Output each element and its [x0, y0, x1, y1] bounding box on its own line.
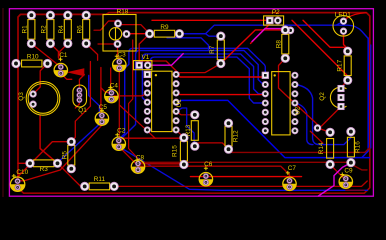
capacitor C5 — [95, 104, 108, 125]
svg-text:C4: C4 — [110, 83, 119, 90]
wire — [75, 100, 79, 108]
svg-text:U2: U2 — [294, 106, 301, 115]
svg-text:R4: R4 — [58, 25, 65, 34]
wire — [148, 54, 184, 66]
wire — [179, 25, 368, 38]
wire — [303, 20, 348, 51]
resistor R14 — [318, 128, 334, 168]
wire — [31, 44, 60, 67]
wire — [205, 183, 207, 186]
capacitor C2 — [112, 128, 126, 151]
svg-text:C5: C5 — [99, 104, 108, 111]
wire — [119, 105, 155, 139]
wire — [118, 68, 120, 138]
resistor R2 — [40, 11, 54, 48]
trimmer R18 — [103, 9, 136, 51]
wire — [89, 76, 100, 116]
wire — [58, 163, 85, 186]
wire — [251, 21, 270, 44]
wire — [119, 147, 368, 191]
transistor Q1 — [73, 85, 87, 114]
svg-text:P2: P2 — [272, 9, 280, 16]
via — [287, 27, 294, 34]
svg-text:R15: R15 — [172, 145, 179, 157]
resistor R17 — [337, 47, 352, 84]
crystal V1 — [133, 54, 152, 70]
capacitor C1 — [54, 52, 68, 77]
svg-text:Q1: Q1 — [78, 107, 87, 114]
resistor R11 — [81, 176, 119, 191]
wire — [191, 176, 302, 178]
wire — [79, 75, 84, 91]
wire — [118, 24, 150, 34]
wire — [252, 29, 290, 42]
svg-text:R18: R18 — [117, 9, 129, 16]
wire — [18, 13, 370, 194]
svg-text:R17: R17 — [337, 59, 344, 71]
resistor R3 — [26, 159, 62, 173]
wire — [118, 44, 120, 59]
transistor Q3 — [18, 82, 60, 116]
resistor R5 — [61, 138, 75, 173]
svg-text:R12: R12 — [232, 130, 239, 142]
wire — [336, 21, 344, 25]
via — [314, 125, 321, 132]
wire — [221, 30, 285, 64]
wire — [127, 33, 150, 35]
svg-text:C3: C3 — [118, 52, 127, 59]
wire — [33, 64, 47, 95]
wire — [138, 166, 290, 180]
svg-text:C10: C10 — [16, 169, 28, 176]
wire — [176, 111, 195, 114]
capacitor C10 — [10, 169, 28, 192]
wire — [59, 122, 102, 162]
svg-text:R2: R2 — [40, 25, 47, 34]
screen edge sliver — [2, 8, 4, 197]
wire — [310, 131, 323, 143]
wire — [318, 163, 351, 196]
wire — [94, 21, 118, 30]
wire — [347, 13, 367, 18]
connector P2 — [264, 9, 284, 25]
svg-text:R14: R14 — [318, 142, 325, 154]
svg-text:R10: R10 — [27, 54, 39, 61]
svg-text:LED1: LED1 — [335, 11, 351, 18]
resistor R12 — [224, 119, 239, 153]
svg-text:Q3: Q3 — [18, 92, 25, 101]
wire — [370, 45, 372, 148]
wire — [195, 143, 229, 149]
resistor R7 — [209, 32, 225, 68]
capacitor C8 — [131, 154, 144, 173]
svg-text:Q2: Q2 — [319, 92, 326, 101]
wire — [229, 148, 370, 153]
svg-text:R3: R3 — [40, 166, 49, 173]
svg-text:U1: U1 — [176, 99, 183, 108]
wire — [98, 43, 115, 45]
svg-text:R8: R8 — [275, 40, 282, 49]
wire — [86, 44, 97, 61]
wire — [318, 128, 331, 132]
svg-text:C7: C7 — [288, 165, 297, 172]
wire — [18, 126, 102, 182]
wire — [176, 93, 265, 95]
wire — [150, 57, 265, 103]
wire — [121, 51, 266, 140]
wire — [114, 93, 147, 96]
transistor Q2 — [319, 85, 347, 109]
svg-text:R7: R7 — [209, 45, 216, 54]
wire — [139, 61, 221, 73]
wire — [119, 138, 184, 141]
wire — [341, 80, 348, 87]
svg-text:C8: C8 — [136, 154, 145, 161]
svg-text:V1: V1 — [141, 54, 149, 61]
wire — [142, 54, 265, 102]
wire — [139, 34, 149, 62]
wire — [179, 34, 220, 37]
wire — [101, 88, 112, 93]
wire — [344, 31, 348, 51]
wire — [152, 19, 270, 21]
resistor R10 — [12, 54, 52, 68]
wire — [279, 58, 318, 128]
svg-text:C9: C9 — [344, 168, 353, 175]
wire — [71, 62, 90, 142]
resistor R15 — [172, 134, 188, 169]
wire — [167, 38, 209, 50]
wire — [101, 68, 102, 116]
svg-text:R11: R11 — [94, 176, 106, 183]
wire — [50, 44, 60, 61]
capacitor C6 — [199, 161, 213, 186]
capacitor C9 — [339, 168, 353, 189]
op-amp U1 — [144, 71, 183, 133]
resistor R13 — [185, 111, 199, 151]
svg-text:C1: C1 — [59, 52, 68, 59]
wire — [120, 48, 266, 138]
wire — [330, 164, 346, 178]
wire — [176, 108, 194, 142]
resistor R4 — [58, 11, 72, 48]
wire — [40, 116, 57, 164]
svg-text:R9: R9 — [160, 24, 169, 31]
wire — [67, 68, 85, 76]
wire — [119, 147, 184, 165]
wire — [110, 68, 113, 93]
wire — [292, 20, 348, 80]
resistor R6 — [76, 11, 90, 48]
wire — [129, 40, 138, 163]
resistor R16 — [347, 127, 362, 166]
capacitor C7 — [283, 165, 297, 190]
wire — [18, 142, 72, 181]
wire — [176, 74, 265, 77]
svg-text:R6: R6 — [76, 25, 83, 34]
svg-text:C2: C2 — [117, 128, 126, 135]
resistor R1 — [21, 11, 35, 48]
svg-text:C6: C6 — [204, 161, 213, 168]
LED LED1 — [333, 11, 354, 36]
wire — [318, 107, 342, 129]
wire — [137, 162, 368, 170]
wire — [176, 130, 184, 138]
svg-text:R1: R1 — [21, 25, 28, 34]
op-amp U2 — [262, 72, 301, 135]
wire — [61, 73, 72, 79]
wire — [114, 181, 367, 186]
capacitor C4 — [105, 83, 119, 103]
wire — [176, 100, 369, 157]
wire — [295, 85, 351, 145]
board outline — [9, 9, 373, 197]
capacitor C3 — [113, 52, 127, 72]
wire — [346, 189, 364, 191]
resistor R9 — [145, 24, 183, 38]
wire — [18, 162, 30, 164]
wire — [295, 103, 313, 145]
svg-text:R16: R16 — [354, 141, 361, 153]
wire — [60, 44, 68, 57]
resistor R8 — [275, 26, 289, 63]
svg-text:R5: R5 — [61, 151, 68, 160]
wire — [362, 38, 368, 158]
